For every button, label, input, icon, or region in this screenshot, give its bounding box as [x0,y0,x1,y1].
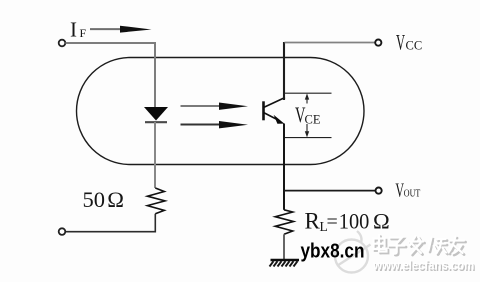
svg-text:V: V [396,30,405,55]
svg-text:ybx8.cn: ybx8.cn [301,240,365,263]
svg-text:I: I [70,18,77,42]
optocoupler package outline U1 [77,58,365,165]
arrow VCE down [306,124,308,134]
terminal VOUT [376,188,382,194]
arrow IF (input current direction) [90,28,122,30]
svg-text:=: = [327,211,338,233]
LED D1 [144,107,168,121]
wire collector to VCC [283,42,285,100]
char zi [390,238,402,244]
svg-text:Ω: Ω [107,187,124,212]
watermark logo circle [335,231,371,273]
svg-text:CC: CC [406,39,423,53]
char shao [430,239,433,252]
resistor RL 100ohm [275,210,293,235]
char fa [409,240,423,242]
wire LED cathode [154,122,156,188]
phototransistor Q1 emitter [264,113,280,121]
terminal anode input [59,40,66,47]
svg-text:Ω: Ω [373,209,390,234]
wire RL to ground [283,234,285,259]
tick line VCE top [284,92,332,94]
wire IF top [66,43,156,107]
terminal cathode return [59,228,66,235]
char dian [374,239,385,250]
resistor R 50ohm [147,188,165,214]
char zi [392,239,404,245]
watermark chinese characters highlight [374,235,465,254]
svg-text:R: R [305,209,321,234]
svg-text:F: F [80,26,87,40]
char fa [411,242,425,245]
tick line VCE bottom [284,137,332,139]
svg-text:100: 100 [339,209,370,234]
phototransistor Q1 collector [264,98,286,108]
svg-text:www.elecfans.com: www.elecfans.com [372,258,474,273]
terminal VCC [375,40,381,46]
wire VOUT [284,190,375,192]
svg-text:50: 50 [83,187,106,212]
phototransistor Q1 base bar [262,101,265,120]
char you [450,239,465,241]
char you [451,241,466,244]
ground [271,259,300,261]
wire 50ohm to terminal [65,214,155,232]
wire emitter down to RL [283,124,285,210]
svg-text:CE: CE [305,112,321,126]
watermark chinese characters [375,237,466,256]
arrow VCE up [306,97,308,104]
svg-text:OUT: OUT [404,187,421,199]
light arrow lower [181,124,221,126]
char shao [429,238,432,251]
light arrow upper [181,105,221,107]
char dian [375,240,386,251]
